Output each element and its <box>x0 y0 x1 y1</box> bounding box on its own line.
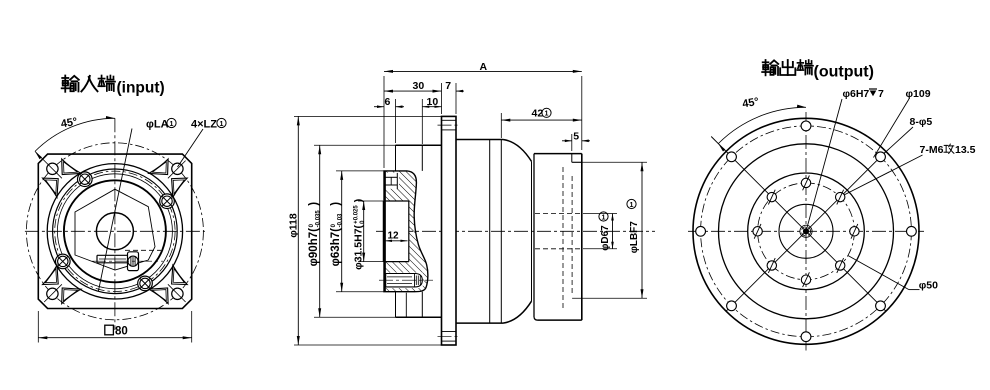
svg-text:φLBF7: φLBF7 <box>629 221 640 254</box>
svg-text:): ) <box>330 202 342 206</box>
svg-text:7: 7 <box>878 88 884 100</box>
svg-text:8-φ5: 8-φ5 <box>910 116 933 128</box>
svg-text:): ) <box>353 199 365 203</box>
svg-text:1: 1 <box>220 120 224 128</box>
svg-text:φ109: φ109 <box>906 88 931 100</box>
svg-text:A: A <box>480 61 488 73</box>
svg-text:): ) <box>308 202 320 206</box>
svg-text:5: 5 <box>573 130 579 142</box>
svg-text:(output): (output) <box>814 64 874 81</box>
svg-text:10: 10 <box>427 96 439 108</box>
svg-text:1: 1 <box>630 201 634 209</box>
svg-text:-0.035: -0.035 <box>316 210 322 228</box>
svg-text:φ63h7(: φ63h7( <box>330 228 342 266</box>
svg-text:(input): (input) <box>117 79 165 96</box>
svg-text:6: 6 <box>385 96 391 108</box>
svg-text:80: 80 <box>115 326 128 338</box>
svg-text:φ118: φ118 <box>288 213 300 238</box>
svg-text:4×LZ: 4×LZ <box>191 118 217 130</box>
svg-text:1: 1 <box>170 120 174 128</box>
svg-text:7: 7 <box>445 80 451 92</box>
svg-text:1: 1 <box>602 213 606 221</box>
svg-text:7-M6: 7-M6 <box>920 144 944 156</box>
svg-text:φ31.5H7(: φ31.5H7( <box>353 224 365 269</box>
svg-text:φLA: φLA <box>146 118 169 130</box>
svg-text:13.5: 13.5 <box>955 144 976 156</box>
svg-text:φ6H7: φ6H7 <box>843 88 870 100</box>
svg-text:φD67: φD67 <box>600 225 611 251</box>
svg-text:30: 30 <box>413 80 425 92</box>
svg-text:1: 1 <box>545 110 549 118</box>
svg-text:+0.025: +0.025 <box>354 205 360 224</box>
svg-text:12: 12 <box>388 231 400 242</box>
svg-text:φ90h7(: φ90h7( <box>308 228 320 266</box>
svg-text:φ50: φ50 <box>919 279 938 291</box>
svg-text:-0.03: -0.03 <box>338 213 344 227</box>
